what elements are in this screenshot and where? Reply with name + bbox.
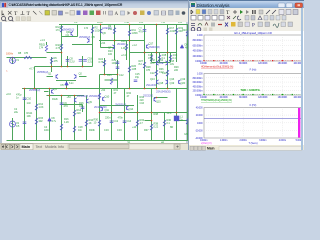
- capacitor C15: [134, 80, 138, 82]
- svg-text:>: >: [6, 69, 8, 73]
- resistor R19: [175, 28, 177, 34]
- resistor R11: [128, 30, 130, 36]
- svg-text:A: A: [115, 12, 119, 17]
- plot3 magenta V(out) burst: [298, 108, 300, 138]
- svg-text:4.000m: 4.000m: [279, 139, 286, 142]
- wire v x57 mid: [61, 53, 63, 67]
- wire v x166: [170, 53, 172, 63]
- svg-text:1.0K: 1.0K: [121, 46, 126, 50]
- capacitor C6: [83, 60, 87, 62]
- svg-text:0.000K: 0.000K: [200, 62, 207, 65]
- wire v x160: [164, 113, 166, 141]
- wire v x100: [104, 58, 106, 75]
- svg-text:5.000m: 5.000m: [296, 139, 303, 142]
- svg-text:174: 174: [84, 26, 89, 30]
- wire q1 base: [47, 76, 54, 78]
- node J21: [156, 52, 158, 54]
- svg-text:15p: 15p: [135, 75, 140, 79]
- svg-text:+0.0: +0.0: [6, 92, 11, 96]
- resistor R15: [35, 118, 37, 124]
- svg-text:T: T: [226, 10, 230, 16]
- svg-text:332: 332: [39, 119, 44, 123]
- wire mid link: [105, 79, 118, 81]
- svg-text:C14: C14: [127, 119, 132, 123]
- svg-text:200.000m: 200.000m: [193, 55, 203, 58]
- capacitor C9: [60, 103, 64, 105]
- wire v x78 low: [82, 105, 84, 113]
- wire fb stub: [62, 104, 83, 106]
- svg-text:R37: R37: [144, 128, 149, 132]
- wire v x140: [144, 25, 146, 89]
- svg-text:200.000m: 200.000m: [193, 90, 203, 93]
- plot3 y-axis labels: [195, 107, 203, 141]
- wire v x96: [100, 25, 102, 41]
- node J14: [111, 112, 113, 114]
- wire v x32: [36, 89, 38, 141]
- plot2 THD green trace markers: [204, 94, 302, 96]
- svg-text:6.2v: 6.2v: [69, 81, 74, 85]
- wire v x20: [24, 89, 26, 141]
- svg-text:R10: R10: [121, 39, 126, 43]
- svg-text:+1.2: +1.2: [132, 43, 137, 47]
- svg-text:2SC5200: 2SC5200: [143, 94, 154, 98]
- node J3: [51, 66, 53, 68]
- svg-text:7mA: 7mA: [124, 22, 129, 24]
- svg-text:1.000m: 1.000m: [220, 139, 227, 142]
- transistor Q14: [127, 106, 129, 110]
- wire v x57 bot: [61, 96, 63, 141]
- node J10: [129, 88, 131, 90]
- transistor Q10: [103, 97, 105, 101]
- resistor R22: [169, 55, 171, 61]
- node J33: [151, 120, 153, 122]
- svg-text:Q19: Q19: [181, 77, 186, 81]
- svg-text:0.22: 0.22: [150, 71, 155, 75]
- resistor R9: [113, 28, 115, 34]
- capacitor C14: [123, 121, 127, 123]
- svg-text:4.7v: 4.7v: [52, 119, 57, 123]
- transistor Q20: [179, 80, 181, 84]
- node J19: [129, 40, 131, 42]
- node J31: [117, 74, 119, 76]
- node J30: [156, 24, 158, 26]
- node J34: [156, 97, 158, 99]
- resistor R42: [98, 93, 100, 99]
- node J25: [12, 57, 14, 59]
- svg-text:800.000m: 800.000m: [193, 77, 203, 80]
- svg-text:4.75: 4.75: [56, 46, 61, 50]
- svg-text:2N5551(2): 2N5551(2): [77, 94, 88, 98]
- svg-text:T: T: [27, 11, 31, 17]
- node J12: [167, 88, 169, 90]
- svg-text:0.000: 0.000: [197, 122, 203, 125]
- svg-text:Main: Main: [22, 145, 31, 149]
- svg-text:Q4b: Q4b: [66, 30, 71, 34]
- svg-text:Q19: Q19: [170, 81, 175, 85]
- wire diff emitter: [56, 80, 76, 82]
- svg-text:+52: +52: [101, 88, 106, 92]
- svg-text:100p: 100p: [112, 61, 118, 65]
- capacitor C2: [23, 122, 27, 124]
- svg-text:1.80K: 1.80K: [132, 31, 139, 35]
- resistor R1a: [60, 26, 62, 32]
- wire bus y52r: [145, 52, 177, 54]
- svg-text:Text: Text: [36, 145, 43, 149]
- svg-text:100: 100: [108, 52, 113, 56]
- svg-text:600.000m: 600.000m: [193, 44, 203, 47]
- svg-text:47K: 47K: [79, 104, 84, 108]
- capacitor C10: [23, 98, 27, 100]
- svg-text:+1.3: +1.3: [40, 38, 45, 42]
- svg-text:1n0: 1n0: [27, 101, 32, 105]
- wire q2 base: [79, 76, 87, 78]
- wire v x172 bot: [176, 89, 178, 141]
- svg-text:R23: R23: [182, 28, 187, 32]
- resistor R2: [91, 27, 93, 33]
- svg-text:755: 755: [161, 22, 166, 24]
- svg-text:HD(Harmonic(v(Out),25000)) (%): HD(Harmonic(v(Out),25000)) (%): [201, 65, 234, 68]
- svg-text:Q14: Q14: [129, 107, 134, 111]
- svg-text:Q13: Q13: [150, 77, 155, 81]
- svg-text:0.22: 0.22: [154, 125, 159, 129]
- svg-text:Q1: Q1: [48, 72, 52, 76]
- svg-text:Q10: Q10: [105, 95, 110, 99]
- svg-text:R38: R38: [154, 112, 159, 116]
- diode D5: [65, 82, 68, 85]
- svg-text:0.9: 0.9: [74, 22, 78, 24]
- plot1 x-axis labels: [200, 62, 304, 65]
- resistor R6: [50, 58, 52, 64]
- capacitor C18: [81, 107, 85, 109]
- capacitor C5: [79, 60, 83, 62]
- plot1 y-axis labels: [193, 34, 204, 63]
- svg-text:R20b: R20b: [89, 128, 95, 132]
- svg-text:THD = 0.0037%: THD = 0.0037%: [240, 88, 260, 92]
- svg-text:0.75: 0.75: [99, 60, 104, 64]
- svg-text:0.5: 0.5: [16, 124, 20, 128]
- svg-text:Q5: Q5: [92, 35, 96, 39]
- resistor R36: [166, 70, 168, 76]
- transistor Q5: [87, 38, 89, 42]
- svg-text:475: 475: [54, 59, 59, 63]
- resistor R38: [150, 124, 152, 130]
- svg-text:+0.7: +0.7: [29, 67, 34, 71]
- svg-text:80.000K: 80.000K: [239, 62, 248, 65]
- node J7: [34, 88, 36, 90]
- svg-text:F (Hz): F (Hz): [250, 104, 257, 107]
- svg-text:+54: +54: [101, 41, 106, 45]
- svg-text:475: 475: [24, 51, 29, 55]
- svg-text:0.22: 0.22: [162, 71, 167, 75]
- wire mid rail: [22, 88, 190, 90]
- resistor R25: [110, 78, 112, 84]
- svg-text:Info: Info: [58, 145, 64, 149]
- transistor Q18: [157, 80, 159, 84]
- svg-text:0.33: 0.33: [117, 128, 122, 132]
- wire v x95 bot: [99, 75, 101, 141]
- node J11: [156, 88, 158, 90]
- source V2: [10, 121, 16, 127]
- wire q3 base: [44, 91, 49, 93]
- svg-text:1.02K: 1.02K: [95, 29, 102, 33]
- node J16: [137, 112, 139, 114]
- wire output rail: [99, 112, 190, 114]
- plot3 Vout frame: [204, 108, 302, 139]
- transistor Q19: [166, 80, 168, 84]
- svg-text:174: 174: [39, 46, 44, 50]
- svg-text:2N5551(2): 2N5551(2): [37, 70, 48, 74]
- svg-text:2.2U: 2.2U: [70, 60, 75, 64]
- resistor R20: [150, 55, 152, 61]
- svg-text:4.02K: 4.02K: [170, 29, 177, 33]
- svg-text:Main: Main: [207, 146, 215, 150]
- transistor Q6: [101, 29, 103, 33]
- capacitor C8: [66, 60, 70, 62]
- svg-text:10K: 10K: [27, 114, 32, 118]
- wire driver bus: [47, 95, 85, 97]
- svg-text:Q15: Q15: [156, 100, 161, 104]
- wire out stub: [177, 120, 188, 122]
- svg-text:47U: 47U: [64, 104, 69, 108]
- svg-text:1.000: 1.000: [197, 34, 203, 37]
- wire v x183: [187, 25, 189, 141]
- wire v x70 bot: [74, 96, 76, 141]
- bottom tab bar: [0, 143, 188, 150]
- toolbar: [0, 8, 188, 23]
- node J9: [49, 88, 51, 90]
- wire v x152: [156, 25, 158, 89]
- plot3 x-axis labels: [200, 139, 303, 142]
- resistor R35: [155, 70, 157, 76]
- wire v x120: [124, 89, 126, 141]
- plot3 cursor baseline: [204, 118, 302, 120]
- svg-text:+2.4: +2.4: [121, 53, 126, 57]
- wire v x45: [49, 89, 51, 141]
- wire v x82: [86, 96, 88, 141]
- resistor R27: [143, 62, 145, 68]
- wire v x8 top: [12, 58, 14, 65]
- wire vas link: [154, 97, 168, 99]
- svg-text:EC-1_25kHz speed_100perm CR: EC-1_25kHz speed_100perm CR: [234, 31, 271, 35]
- transistor Q9: [87, 99, 89, 103]
- node J6: [66, 88, 68, 90]
- svg-text:C10: C10: [27, 97, 32, 101]
- resistor R12: [35, 104, 37, 110]
- wire v x62 diode: [66, 81, 68, 89]
- wire v x110: [114, 25, 116, 61]
- capacitor C12: [116, 67, 120, 69]
- wire bus y74: [100, 74, 118, 76]
- wire v x163: [167, 25, 169, 89]
- inductor L1: [174, 116, 179, 121]
- svg-text:Q17: Q17: [149, 42, 154, 46]
- svg-text:120.000K: 120.000K: [258, 62, 268, 65]
- wire v x125: [129, 25, 131, 89]
- node J23: [144, 52, 146, 54]
- svg-text:Q9: Q9: [89, 100, 93, 104]
- PLOTS: [189, 31, 304, 145]
- svg-text:600.000m: 600.000m: [193, 81, 203, 84]
- svg-text:2N5551(2): 2N5551(2): [29, 88, 40, 92]
- wire bus y40: [99, 40, 145, 42]
- title bar: [0, 0, 188, 8]
- svg-text:P: P: [252, 24, 255, 29]
- svg-text:200.000K: 200.000K: [294, 62, 304, 65]
- wire v x57 top: [61, 25, 63, 53]
- svg-text:F (Hz): F (Hz): [250, 69, 257, 72]
- svg-text:C16: C16: [140, 101, 145, 105]
- plot2 x-axis labels: [200, 96, 304, 99]
- node J32: [104, 74, 106, 76]
- svg-text:THD(HARM(v(Out)),25000) (%): THD(HARM(v(Out)),25000) (%): [201, 99, 232, 102]
- svg-text:R8: R8: [18, 51, 22, 55]
- svg-text:0.33: 0.33: [104, 128, 109, 132]
- resistor R40: [163, 120, 165, 126]
- wire right edge: [189, 25, 191, 63]
- wire bias lk: [130, 52, 145, 54]
- svg-text:400.000m: 400.000m: [193, 85, 203, 88]
- svg-text:220: 220: [174, 68, 179, 72]
- wire v x78 tail: [82, 56, 84, 67]
- transistor Q21: [75, 98, 77, 102]
- transistor Q13: [166, 61, 168, 65]
- svg-text:Models: Models: [45, 145, 57, 149]
- svg-text:C13: C13: [114, 119, 119, 123]
- wire v x47 tail: [51, 57, 53, 72]
- svg-text:800.000m: 800.000m: [193, 39, 203, 42]
- svg-text:Q16: Q16: [170, 77, 175, 81]
- resistor R45: [60, 124, 62, 130]
- diode D8: [180, 45, 183, 48]
- svg-text:Q20: Q20: [181, 81, 186, 85]
- svg-text:B.AD: B.AD: [97, 22, 103, 24]
- svg-text:220: 220: [77, 111, 82, 115]
- svg-text:2.000m: 2.000m: [240, 139, 247, 142]
- svg-text:1.88: 1.88: [132, 67, 137, 71]
- resistor R5: [45, 45, 47, 51]
- wire bus y44: [72, 44, 93, 46]
- node J4: [67, 66, 69, 68]
- svg-text:4m7: 4m7: [150, 61, 155, 65]
- svg-text:200.000K: 200.000K: [294, 96, 304, 99]
- capacitor C11: [116, 62, 120, 64]
- wire v x113: [117, 60, 119, 89]
- node J28: [100, 24, 102, 26]
- svg-text:40.000K: 40.000K: [219, 62, 228, 65]
- resistor R10: [125, 44, 127, 50]
- svg-text:2SA1943: 2SA1943: [146, 83, 157, 87]
- svg-text:1.000: 1.000: [197, 73, 203, 76]
- svg-text:V1: V1: [16, 58, 20, 62]
- transistor Q3: [52, 89, 54, 93]
- plot1 HD frame: [204, 35, 302, 61]
- svg-text:20.000: 20.000: [196, 114, 203, 117]
- svg-text:80.000K: 80.000K: [239, 96, 248, 99]
- node J17: [151, 112, 153, 114]
- transistor Q11: [101, 107, 103, 111]
- wire v x96 low: [100, 41, 102, 48]
- svg-text:2N5401(2): 2N5401(2): [89, 94, 100, 98]
- wire top +55V rail: [59, 24, 190, 26]
- node J29: [129, 24, 131, 26]
- svg-text:220n: 220n: [105, 116, 111, 120]
- resistor R8 input: [24, 56, 32, 58]
- svg-text:C12: C12: [119, 73, 124, 77]
- wire tail bus: [35, 66, 93, 68]
- svg-text:R25: R25: [107, 73, 112, 77]
- resistor R4: [60, 44, 62, 50]
- plot2 y-axis labels: [193, 73, 204, 98]
- svg-text:160.000K: 160.000K: [278, 96, 288, 99]
- wire bus y47: [101, 47, 115, 49]
- wire pre-driver bus: [100, 105, 135, 107]
- transistor Q7: [113, 45, 115, 49]
- node J1: [61, 52, 63, 54]
- diode D6: [48, 118, 51, 121]
- svg-text:22u: 22u: [14, 110, 19, 114]
- wire bus y36: [62, 36, 78, 38]
- node J20: [114, 40, 116, 42]
- svg-text:+53: +53: [67, 95, 72, 99]
- wire v x122: [126, 41, 128, 61]
- node J8: [24, 88, 26, 90]
- svg-text:8R: 8R: [170, 125, 173, 129]
- svg-text:2SA1943(G0): 2SA1943(G0): [156, 90, 171, 94]
- wire v x107: [111, 89, 113, 141]
- wire v x73: [77, 25, 79, 37]
- svg-text:1.2K: 1.2K: [64, 120, 69, 124]
- svg-text:MJE: MJE: [159, 61, 164, 65]
- svg-text:Q18: Q18: [159, 81, 164, 85]
- schematic canvas: [0, 22, 188, 143]
- wire v x42: [46, 42, 48, 45]
- svg-text:2N5551(2): 2N5551(2): [115, 103, 126, 107]
- svg-text:Q2: Q2: [79, 72, 83, 76]
- node J18: [176, 112, 178, 114]
- svg-text:400.000m: 400.000m: [193, 50, 203, 53]
- wire v x8 bot: [12, 118, 14, 141]
- svg-text:120.000K: 120.000K: [258, 96, 268, 99]
- resistor R33: [136, 120, 138, 126]
- svg-text:47U: 47U: [139, 30, 144, 34]
- wire ground rail: [7, 140, 191, 142]
- plot2 THD frame: [204, 74, 302, 96]
- transistor Q2: [74, 74, 76, 78]
- resistor R44: [85, 120, 87, 126]
- capacitor C7: [143, 30, 147, 32]
- svg-text:+44: +44: [132, 125, 137, 129]
- wire v x147 bot: [151, 89, 153, 141]
- svg-text:-20.000: -20.000: [195, 129, 203, 132]
- svg-text:1.0K: 1.0K: [39, 105, 44, 109]
- node J24: [144, 88, 146, 90]
- node J22: [167, 52, 169, 54]
- svg-text:+55: +55: [178, 22, 183, 24]
- wire bus y58: [152, 62, 171, 64]
- resistor R46: [73, 126, 75, 132]
- resistor R24: [103, 60, 105, 66]
- wire v x147 top: [151, 53, 153, 63]
- svg-text:470n: 470n: [118, 116, 124, 120]
- svg-text:3.000m: 3.000m: [259, 139, 266, 142]
- wire base link: [47, 52, 62, 54]
- svg-text:+55: +55: [139, 22, 144, 24]
- wire v x63 tail: [67, 56, 69, 67]
- resistor R21: [158, 55, 160, 61]
- svg-text:100Hz: 100Hz: [6, 52, 14, 56]
- wire input feed: [7, 57, 47, 59]
- svg-text:2N5401(2): 2N5401(2): [79, 35, 90, 39]
